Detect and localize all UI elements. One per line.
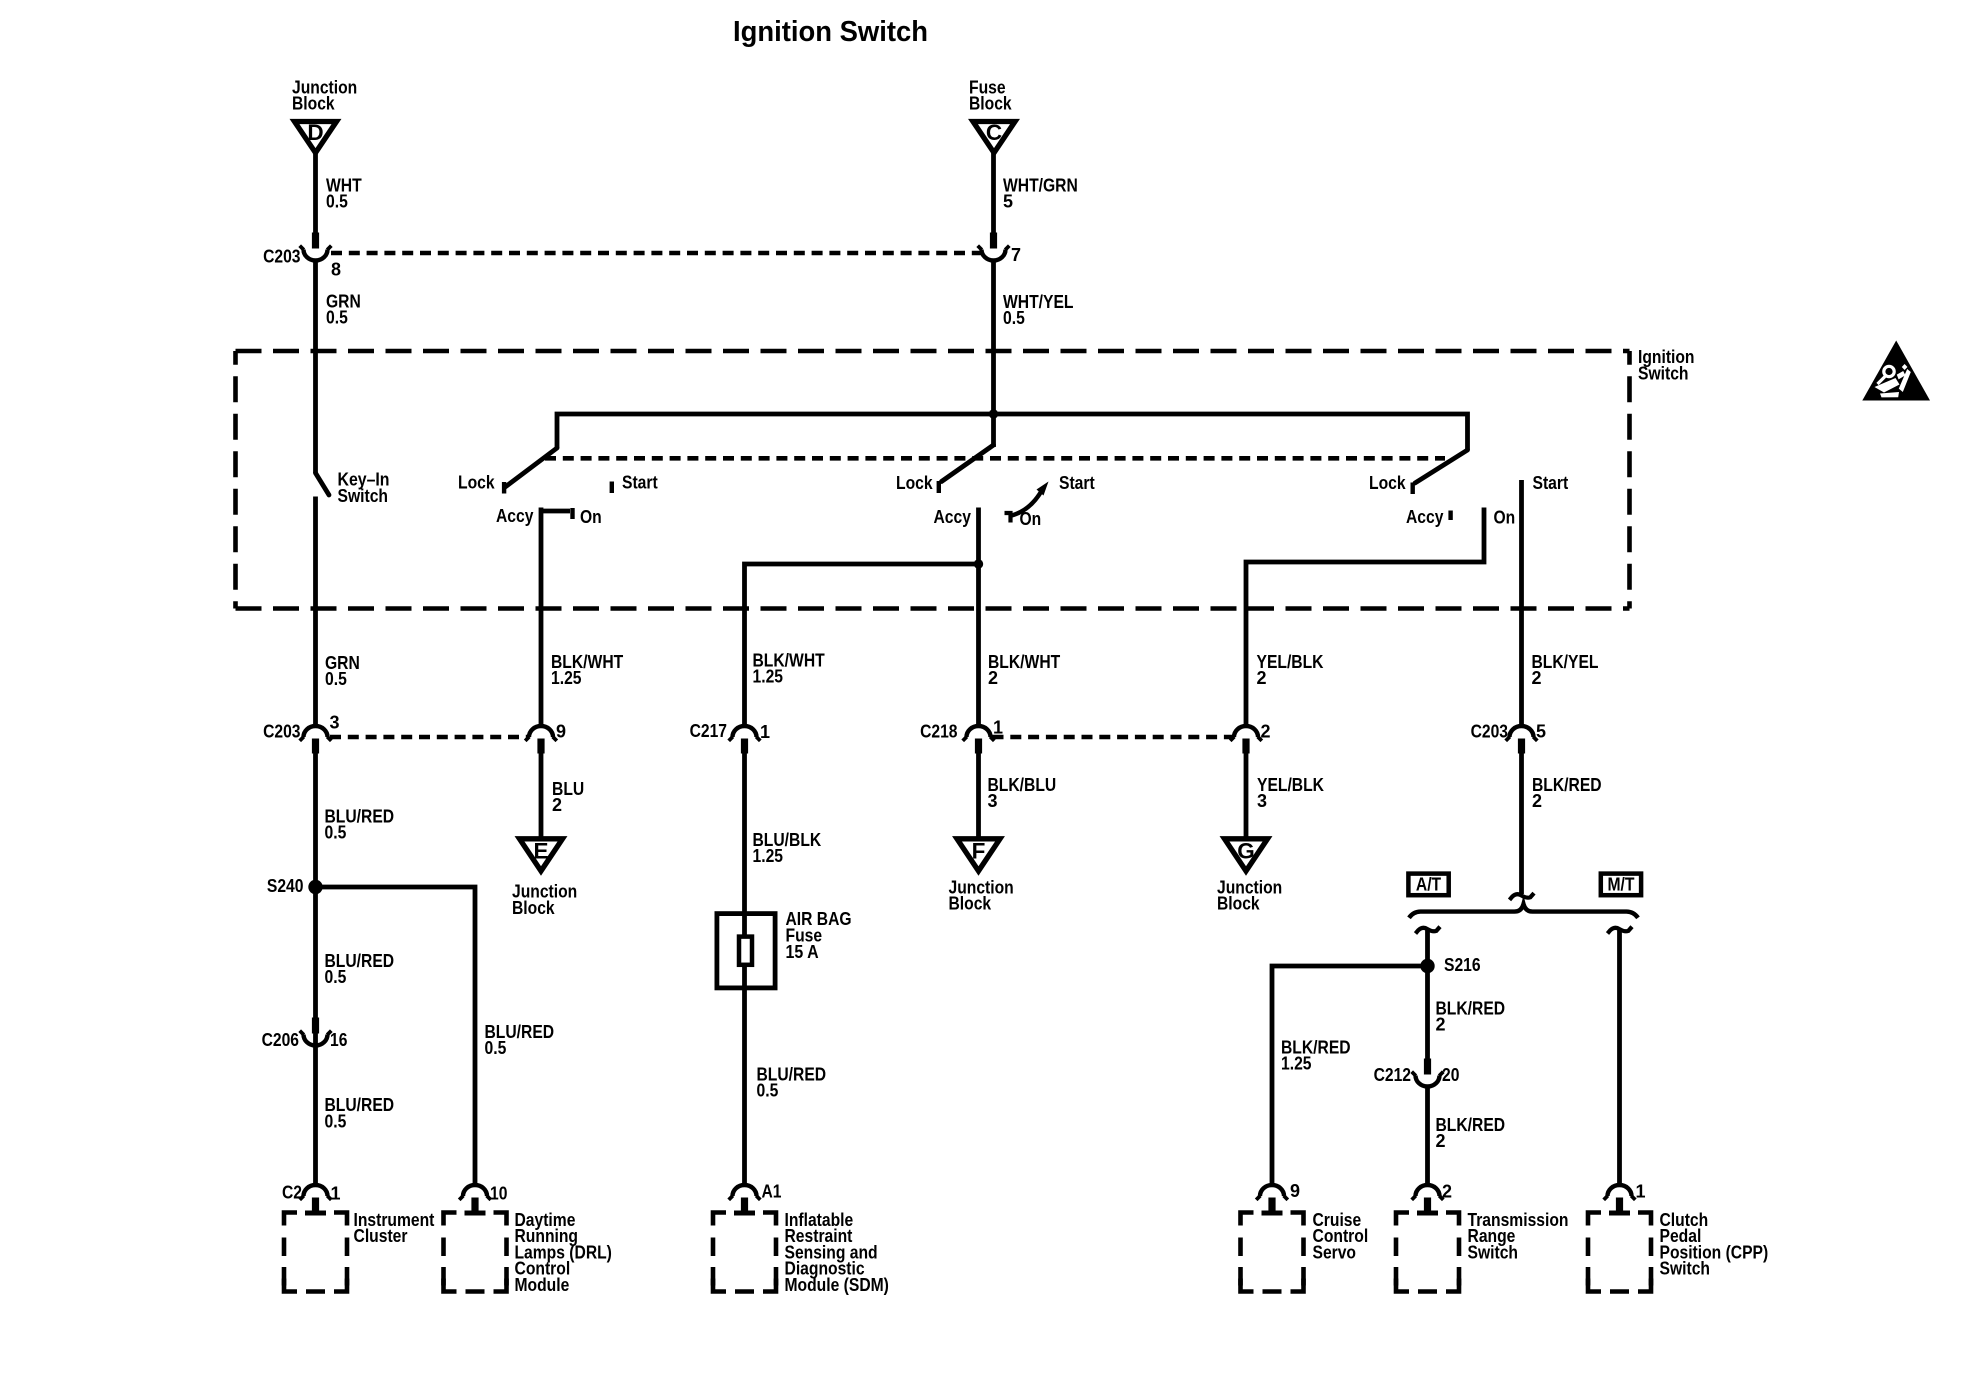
svg-text:20: 20	[1442, 1065, 1459, 1085]
connector C203 pin 8	[263, 233, 341, 280]
switch group 2 blade (Lock)	[942, 445, 994, 482]
svg-text:3: 3	[988, 791, 998, 811]
svg-text:1.25: 1.25	[753, 667, 784, 687]
svg-text:0.5: 0.5	[325, 823, 347, 843]
svg-text:YEL/BLK: YEL/BLK	[1257, 775, 1324, 795]
svg-text:On: On	[1494, 507, 1516, 527]
svg-text:C212: C212	[1374, 1065, 1411, 1085]
svg-text:Start: Start	[1059, 473, 1095, 493]
group 1 output wire to C203-9	[539, 508, 544, 727]
connector C203 pin 7	[978, 233, 1021, 265]
connector C203 pin 9	[525, 721, 566, 753]
svg-text:2: 2	[988, 668, 998, 688]
instrument cluster module box	[284, 1213, 347, 1292]
svg-text:0.5: 0.5	[326, 308, 348, 328]
svg-text:C203: C203	[263, 721, 300, 741]
splice S216	[1420, 955, 1480, 975]
svg-text:Switch: Switch	[338, 486, 389, 506]
junction block F triangle	[957, 839, 1000, 872]
connector C206 pin 16	[262, 1018, 348, 1050]
svg-text:9: 9	[1290, 1181, 1300, 1201]
svg-text:Ignition Switch: Ignition Switch	[733, 16, 928, 48]
connector C212 pin 20	[1374, 1059, 1460, 1087]
svg-text:5: 5	[1003, 192, 1013, 212]
svg-text:5: 5	[1536, 721, 1546, 741]
key-in switch	[316, 470, 390, 506]
svg-text:Start: Start	[1533, 473, 1569, 493]
svg-text:BLK/YEL: BLK/YEL	[1532, 652, 1599, 672]
svg-text:BLK/BLU: BLK/BLU	[988, 775, 1057, 795]
group 1 accy-on link	[541, 509, 570, 514]
fuse AIR BAG 15A	[717, 909, 852, 990]
connector C217 pin 1	[690, 721, 770, 753]
dashed link C203-3 to C203-9	[330, 735, 528, 740]
switch group 3 blade (Lock)	[1415, 450, 1468, 483]
group 1 on contact	[570, 508, 574, 519]
DRL module box	[444, 1213, 507, 1292]
fuse block C triangle	[973, 120, 1015, 153]
connector C218 pin 2	[1230, 721, 1270, 753]
svg-text:On: On	[580, 507, 602, 527]
M/T branch break curl	[1608, 927, 1633, 934]
bus junction node	[989, 409, 998, 418]
svg-text:8: 8	[331, 259, 341, 279]
group 3 accy contact	[1448, 511, 1452, 521]
ignition switch bus wire	[557, 414, 1468, 450]
connector pin 2 (transmission range)	[1412, 1181, 1452, 1215]
wire from junction to C217 branch	[745, 564, 979, 727]
CPP module box	[1588, 1213, 1651, 1292]
wire C218-1 to F	[976, 753, 981, 838]
svg-text:F: F	[972, 839, 986, 864]
svg-text:Accy: Accy	[934, 507, 971, 527]
svg-text:YEL/BLK: YEL/BLK	[1257, 652, 1324, 672]
svg-text:A1: A1	[762, 1181, 782, 1201]
svg-text:2: 2	[1436, 1131, 1446, 1151]
svg-text:2: 2	[1436, 1015, 1446, 1035]
connector C2 pin 1 (instrument cluster)	[282, 1182, 341, 1215]
svg-text:C2: C2	[282, 1182, 302, 1202]
svg-text:1.25: 1.25	[551, 668, 582, 688]
wire group1 C203-9 to E	[539, 753, 544, 838]
svg-text:2: 2	[552, 795, 562, 815]
svg-text:A/T: A/T	[1416, 874, 1441, 894]
cruise module box	[1241, 1213, 1304, 1292]
svg-text:Module (SDM): Module (SDM)	[785, 1275, 889, 1295]
svg-text:7: 7	[1011, 245, 1021, 265]
svg-text:Lock: Lock	[1369, 473, 1406, 493]
M/T branch wire to CPP switch	[1617, 929, 1622, 1185]
svg-text:C: C	[986, 120, 1002, 145]
group 2 lock contact	[937, 481, 941, 493]
junction block E triangle	[520, 839, 563, 872]
svg-text:Block: Block	[1217, 894, 1260, 914]
dashed link C203-8 to C203-7	[331, 251, 981, 256]
wire C203-3 to S240	[313, 753, 318, 1185]
wire C203-7 down into ignition switch box	[991, 261, 996, 448]
svg-text:Block: Block	[292, 94, 335, 114]
svg-text:Switch: Switch	[1638, 363, 1689, 383]
svg-text:C218: C218	[920, 721, 957, 741]
wire end break curl	[1510, 893, 1535, 900]
svg-text:15 A: 15 A	[786, 942, 819, 962]
svg-text:1: 1	[993, 717, 1003, 737]
splice S240	[267, 876, 323, 896]
svg-text:2: 2	[1532, 668, 1542, 688]
group 1 lock contact	[502, 482, 506, 494]
svg-text:S216: S216	[1444, 955, 1481, 975]
svg-text:E: E	[533, 839, 548, 864]
svg-text:D: D	[307, 120, 323, 145]
group 3 lock contact	[1411, 483, 1415, 495]
svg-text:BLK/WHT: BLK/WHT	[988, 652, 1060, 672]
group 3 start wire down to C203-5	[1519, 480, 1524, 727]
connector C218 pin 1	[920, 717, 1003, 753]
group 1 start contact	[610, 482, 614, 494]
svg-text:G: G	[1237, 839, 1255, 864]
svg-text:C217: C217	[690, 721, 727, 741]
svg-text:Switch: Switch	[1660, 1259, 1711, 1279]
wire D to C203-8	[313, 153, 318, 233]
svg-text:1: 1	[1636, 1181, 1646, 1201]
junction block G triangle	[1225, 839, 1268, 872]
svg-text:Switch: Switch	[1468, 1242, 1519, 1262]
svg-text:S240: S240	[267, 876, 304, 896]
svg-text:BLK/RED: BLK/RED	[1532, 775, 1602, 795]
wire fuse to A1	[742, 988, 747, 1185]
svg-text:16: 16	[330, 1030, 347, 1050]
svg-text:0.5: 0.5	[325, 967, 347, 987]
svg-text:1.25: 1.25	[1281, 1054, 1312, 1074]
svg-text:2: 2	[1257, 668, 1267, 688]
wire S216 to cruise branch	[1272, 966, 1428, 1185]
A/T branch break curl	[1416, 927, 1441, 934]
group 2 blade arc to start	[1012, 482, 1049, 516]
transmission module box	[1396, 1213, 1459, 1292]
svg-text:2: 2	[1261, 721, 1271, 741]
group 2 on contact	[1005, 513, 1011, 523]
connector pin 1 (CPP)	[1604, 1181, 1646, 1215]
svg-text:3: 3	[1257, 791, 1267, 811]
brace	[1409, 904, 1638, 918]
svg-text:0.5: 0.5	[1003, 308, 1025, 328]
wire C to C203-7	[991, 153, 996, 233]
dashed link C218-1 to C218-2	[993, 735, 1234, 740]
svg-text:On: On	[1020, 509, 1042, 529]
dotted line inside switch	[545, 456, 1445, 461]
switch group 1 blade (Lock)	[505, 448, 558, 488]
svg-text:1: 1	[331, 1183, 341, 1203]
svg-text:C203: C203	[263, 246, 300, 266]
SDM module box	[713, 1213, 776, 1292]
connector pin 9 (cruise)	[1256, 1181, 1300, 1216]
airbag caution icon	[1862, 341, 1930, 401]
junction block D triangle	[295, 120, 337, 153]
svg-text:0.5: 0.5	[325, 1112, 347, 1132]
svg-text:1.25: 1.25	[753, 846, 784, 866]
junction node on accy wire	[974, 559, 983, 568]
connector C203 pin 5	[1471, 721, 1546, 753]
wire C212 to transmission range switch	[1425, 1086, 1430, 1185]
group 3 on wire down-left to C218-2	[1246, 508, 1484, 727]
connector C203 pin 3	[263, 712, 339, 753]
svg-text:Cluster: Cluster	[354, 1226, 408, 1246]
svg-text:M/T: M/T	[1608, 874, 1635, 894]
connector pin A1 (SDM)	[729, 1181, 782, 1215]
connector pin 10 (DRL)	[459, 1183, 507, 1215]
ignition switch dashed box	[236, 351, 1630, 609]
svg-text:Accy: Accy	[496, 506, 533, 526]
wire C203-5 down to brace	[1519, 753, 1524, 894]
svg-text:Module: Module	[515, 1275, 570, 1295]
svg-text:2: 2	[1442, 1181, 1452, 1201]
svg-text:Accy: Accy	[1406, 507, 1443, 527]
svg-text:C203: C203	[1471, 721, 1508, 741]
svg-text:WHT/GRN: WHT/GRN	[1003, 175, 1078, 195]
svg-text:0.5: 0.5	[326, 192, 348, 212]
svg-text:Start: Start	[622, 472, 658, 492]
svg-text:Servo: Servo	[1313, 1242, 1357, 1262]
svg-text:3: 3	[330, 712, 340, 732]
svg-text:10: 10	[490, 1183, 507, 1203]
svg-text:2: 2	[1532, 791, 1542, 811]
svg-text:9: 9	[556, 721, 566, 741]
branch wire S240 to DRL module	[316, 887, 476, 1185]
svg-text:BLK/RED: BLK/RED	[1436, 998, 1506, 1018]
svg-text:BLK/RED: BLK/RED	[1436, 1115, 1506, 1135]
wire key-in switch to C203-3	[313, 497, 318, 727]
wire C218-2 to G	[1244, 753, 1249, 838]
svg-text:0.5: 0.5	[485, 1038, 507, 1058]
svg-text:0.5: 0.5	[757, 1081, 779, 1101]
svg-text:1: 1	[760, 722, 770, 742]
svg-text:Block: Block	[969, 94, 1012, 114]
svg-text:Block: Block	[512, 898, 555, 918]
wire C203-8 down to key-in switch	[313, 261, 318, 474]
svg-text:Lock: Lock	[458, 472, 495, 492]
A/T branch wire to C212	[1425, 929, 1430, 1059]
svg-text:Block: Block	[949, 894, 992, 914]
A/T tag box	[1408, 874, 1448, 896]
svg-text:C206: C206	[262, 1030, 299, 1050]
svg-text:0.5: 0.5	[325, 669, 347, 689]
M/T tag box	[1601, 874, 1641, 896]
wire C217-1 to fuse	[742, 753, 747, 913]
group 2 accy output wire to C218-1	[976, 508, 981, 727]
svg-text:Lock: Lock	[896, 473, 933, 493]
